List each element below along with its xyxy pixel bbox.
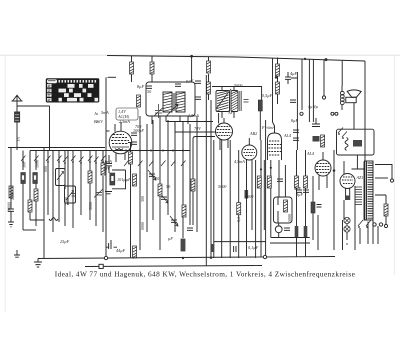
svg-text:300: 300: [140, 196, 145, 202]
svg-text:AL4: AL4: [283, 133, 291, 138]
svg-text:0,1µF: 0,1µF: [248, 245, 259, 251]
svg-text:µµF: µµF: [186, 78, 194, 83]
svg-text:20000: 20000: [7, 202, 12, 212]
svg-text:50: 50: [147, 89, 152, 94]
svg-text:10V: 10V: [103, 166, 110, 171]
svg-text:5000: 5000: [245, 194, 254, 199]
svg-text:8µF: 8µF: [137, 84, 145, 89]
svg-text:0,1: 0,1: [236, 217, 242, 222]
svg-text:5000: 5000: [64, 197, 69, 205]
svg-text:5000: 5000: [88, 202, 93, 210]
svg-text:0000: 0000: [140, 222, 145, 230]
svg-text:000: 000: [43, 166, 48, 172]
svg-text:µF: µF: [168, 236, 173, 241]
svg-text:10: 10: [155, 176, 160, 181]
svg-text:2000: 2000: [10, 192, 15, 200]
svg-text:8µF: 8µF: [291, 118, 299, 123]
svg-text:70V: 70V: [194, 126, 201, 131]
svg-text:Br: Br: [94, 119, 99, 124]
svg-text:5000: 5000: [234, 83, 243, 88]
svg-text:0,5µF: 0,5µF: [262, 93, 273, 99]
svg-text:44µF: 44µF: [116, 248, 126, 253]
svg-text:1,5mA: 1,5mA: [188, 113, 199, 119]
svg-text:AB2: AB2: [249, 131, 257, 136]
svg-text:4µF: 4µF: [294, 186, 302, 191]
svg-text:Ja: Ja: [94, 111, 98, 116]
svg-text:25µF: 25µF: [60, 239, 70, 244]
svg-text:F+6mA: F+6mA: [261, 125, 276, 130]
svg-text:4µF: 4µF: [290, 71, 298, 76]
svg-text:1000: 1000: [35, 160, 40, 168]
svg-text:4µ 4µ: 4µ 4µ: [308, 104, 319, 109]
svg-text:101µµF: 101µµF: [117, 177, 131, 182]
svg-text:100pF: 100pF: [133, 128, 144, 133]
svg-text:AF7: AF7: [227, 110, 236, 115]
svg-text:300: 300: [22, 162, 27, 168]
svg-text:50: 50: [166, 184, 171, 189]
svg-text:AZ1: AZ1: [356, 175, 364, 180]
svg-text:5000: 5000: [218, 184, 227, 189]
svg-text:5mA: 5mA: [101, 110, 109, 115]
svg-text:TA: TA: [16, 137, 21, 142]
svg-text:Ideal, 4W 77 und Hagenuk, 648: Ideal, 4W 77 und Hagenuk, 648 KW, Wechse…: [55, 270, 356, 279]
svg-text:8µF: 8µF: [296, 192, 304, 197]
svg-text:4,5mA: 4,5mA: [234, 159, 245, 165]
svg-text:a: a: [346, 241, 348, 246]
svg-text:AL4: AL4: [306, 151, 314, 156]
svg-text:5000: 5000: [287, 214, 292, 222]
